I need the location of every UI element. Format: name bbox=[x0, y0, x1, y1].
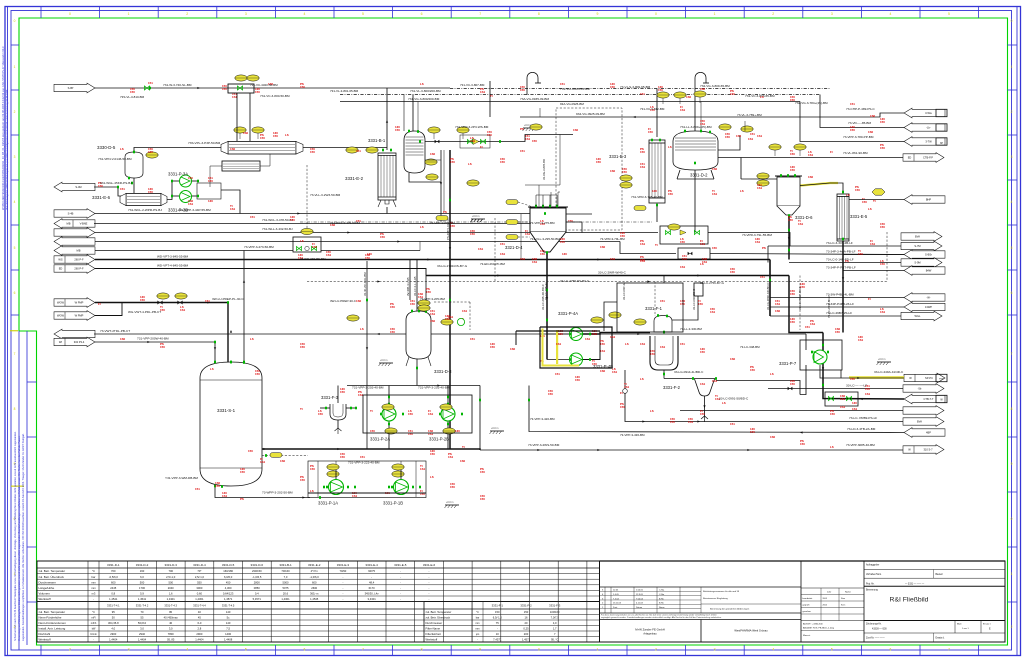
svg-text:7.04.04: 7.04.04 bbox=[636, 598, 644, 600]
svg-text:Plot: HP DesignJet 1055CM PS3: Plot: HP DesignJet 1055CM PS3 Papier A0 … bbox=[6, 89, 9, 210]
svg-text:+0.0 m: +0.0 m bbox=[446, 501, 453, 504]
svg-text:73S-VPL-3-P3P-50-BM: 73S-VPL-3-P3P-50-BM bbox=[188, 141, 221, 145]
svg-text:1S0: 1S0 bbox=[430, 152, 436, 156]
svg-text:4,0: 4,0 bbox=[553, 621, 557, 625]
svg-text:731-VC-4320-50-BM: 731-VC-4320-50-BM bbox=[250, 83, 278, 87]
svg-text:2: 2 bbox=[1011, 625, 1013, 629]
svg-text:4.11.03: 4.11.03 bbox=[636, 603, 644, 605]
svg-text:73-VPP-3-2WS-50-BM: 73-VPP-3-2WS-50-BM bbox=[528, 443, 560, 447]
svg-text:1S1: 1S1 bbox=[712, 192, 718, 196]
svg-text:bar: bar bbox=[476, 617, 480, 620]
svg-text:73-LL-3-330-BM: 73-LL-3-330-BM bbox=[680, 327, 702, 331]
svg-text:1S1: 1S1 bbox=[600, 349, 606, 353]
svg-text:bar: bar bbox=[92, 575, 96, 579]
svg-text:0: 0 bbox=[14, 19, 16, 23]
svg-text:TI: TI bbox=[370, 409, 373, 413]
svg-text:Bauteil: Bauteil bbox=[936, 573, 944, 576]
svg-text:1S0: 1S0 bbox=[510, 347, 516, 351]
svg-text:3331-F-3: 3331-F-3 bbox=[321, 395, 339, 400]
svg-text:150: 150 bbox=[880, 146, 885, 150]
svg-text:-: - bbox=[400, 576, 401, 579]
svg-text:73A-VG-0935-09-BM: 73A-VG-0935-09-BM bbox=[520, 97, 549, 101]
svg-text:150: 150 bbox=[310, 150, 315, 154]
svg-text:73-34P-P-PBT-PB-LF: 73-34P-P-PBT-PB-LF bbox=[826, 266, 856, 270]
svg-text:-1,0/6,0: -1,0/6,0 bbox=[310, 575, 320, 579]
svg-text:-: - bbox=[400, 598, 401, 601]
svg-text:140: 140 bbox=[226, 621, 231, 625]
svg-text:Volumen: Volumen bbox=[39, 592, 51, 596]
svg-text:ANLAGE: R.IS. FB-BILD_1.dwg: ANLAGE: R.IS. FB-BILD_1.dwg bbox=[803, 627, 835, 630]
svg-text:150: 150 bbox=[390, 330, 395, 334]
svg-text:1S1: 1S1 bbox=[612, 370, 618, 374]
svg-text:150: 150 bbox=[148, 190, 153, 194]
svg-text:2900: 2900 bbox=[110, 632, 116, 636]
svg-text:Name: Name bbox=[659, 607, 665, 609]
svg-text:-W-: -W- bbox=[926, 296, 930, 300]
svg-text:7,0: 7,0 bbox=[284, 575, 288, 579]
svg-text:Ersatz f.: Ersatz f. bbox=[983, 623, 991, 626]
svg-text:150: 150 bbox=[148, 150, 153, 154]
svg-text:1 von 1: 1 von 1 bbox=[962, 628, 969, 630]
svg-text:731-VPP-3-2P3-WS-BM: 731-VPP-3-2P3-WS-BM bbox=[455, 125, 489, 129]
svg-text:150: 150 bbox=[408, 412, 413, 416]
svg-text:FI: FI bbox=[830, 150, 833, 154]
svg-text:1S1: 1S1 bbox=[680, 265, 686, 269]
svg-text:1S1: 1S1 bbox=[448, 315, 454, 319]
svg-text:7: 7 bbox=[14, 352, 16, 356]
svg-text:150: 150 bbox=[865, 387, 870, 391]
svg-text:4: 4 bbox=[186, 648, 188, 652]
svg-text:4BP: 4BP bbox=[926, 431, 931, 435]
svg-text:33-LG-2755-DS-BY-G: 33-LG-2755-DS-BY-G bbox=[560, 279, 590, 283]
svg-text:160: 160 bbox=[140, 569, 145, 573]
svg-text:1.4.05: 1.4.05 bbox=[613, 594, 620, 596]
svg-text:1,4571: 1,4571 bbox=[224, 597, 233, 601]
svg-text:6: 6 bbox=[303, 648, 305, 652]
svg-text:151: 151 bbox=[195, 487, 200, 491]
svg-text:2445: 2445 bbox=[110, 586, 116, 590]
svg-text:2,5/-1,0: 2,5/-1,0 bbox=[195, 575, 205, 579]
svg-text:151: 151 bbox=[360, 455, 365, 459]
svg-text:1S1: 1S1 bbox=[478, 247, 484, 251]
svg-text:5: 5 bbox=[948, 12, 950, 16]
svg-text:Auftraggeber: Auftraggeber bbox=[866, 564, 880, 567]
svg-text:3331-E-3: 3331-E-3 bbox=[609, 154, 627, 159]
svg-text:Benennung der geänderten Änder: Benennung der geänderten Änderungen bbox=[710, 608, 750, 611]
svg-text:6: 6 bbox=[421, 12, 423, 16]
svg-text:m3/h: m3/h bbox=[91, 622, 97, 625]
svg-text:550: 550 bbox=[197, 580, 202, 584]
svg-text:1S0: 1S0 bbox=[356, 299, 362, 303]
svg-text:Ersatz d.: Ersatz d. bbox=[936, 637, 945, 640]
svg-text:bearbeitet: bearbeitet bbox=[803, 597, 813, 600]
svg-text:43330-—-500: 43330-—-500 bbox=[872, 628, 887, 631]
svg-text:7: 7 bbox=[948, 648, 950, 652]
svg-text:S-4M: S-4M bbox=[75, 185, 81, 189]
svg-text:+0.0 m: +0.0 m bbox=[491, 427, 498, 430]
svg-text:-: - bbox=[342, 593, 343, 596]
svg-text:1: 1 bbox=[1011, 572, 1013, 576]
svg-text:3,4301: 3,4301 bbox=[367, 597, 376, 601]
svg-text:1S1: 1S1 bbox=[520, 257, 526, 261]
svg-text:33-LC-2756-BY-G: 33-LC-2756-BY-G bbox=[700, 281, 725, 285]
svg-text:151: 151 bbox=[850, 102, 855, 106]
svg-text:151: 151 bbox=[760, 275, 765, 279]
svg-text:1S1: 1S1 bbox=[757, 186, 763, 190]
svg-text:731-WCL-3-478-50-BJ: 731-WCL-3-478-50-BJ bbox=[262, 218, 294, 222]
svg-text:731-VPN-V-0146-50-BM: 731-VPN-V-0146-50-BM bbox=[98, 157, 132, 161]
svg-text:95: 95 bbox=[112, 610, 115, 614]
svg-text:4,300: 4,300 bbox=[225, 586, 232, 590]
svg-text:Zeichnungs-Nr.: Zeichnungs-Nr. bbox=[866, 623, 882, 626]
svg-text:+0.0 m: +0.0 m bbox=[878, 358, 885, 361]
svg-text:1S1: 1S1 bbox=[556, 342, 562, 346]
svg-text:150: 150 bbox=[700, 412, 705, 416]
svg-text:150: 150 bbox=[300, 478, 305, 482]
svg-text:500: 500 bbox=[168, 580, 173, 584]
svg-text:3W-LU-PREP-PL-30-C: 3W-LU-PREP-PL-30-C bbox=[212, 297, 244, 301]
svg-text:150: 150 bbox=[500, 160, 505, 164]
svg-text:150: 150 bbox=[130, 90, 135, 94]
svg-text:3331-E-2: 3331-E-2 bbox=[308, 563, 321, 567]
svg-text:150: 150 bbox=[880, 262, 885, 266]
svg-text:150: 150 bbox=[730, 270, 735, 274]
svg-text:75: 75 bbox=[496, 621, 499, 625]
svg-text:73S-VL-3-810-BM: 73S-VL-3-810-BM bbox=[120, 95, 145, 99]
svg-text:73-LC-0-14P-PD-LF: 73-LC-0-14P-PD-LF bbox=[826, 258, 854, 262]
svg-text:3: 3 bbox=[14, 155, 16, 159]
svg-text:33-LG-2799-DS-BY-G: 33-LG-2799-DS-BY-G bbox=[437, 264, 468, 268]
svg-text:Zust.: Zust. bbox=[613, 606, 618, 609]
svg-text:LS: LS bbox=[668, 145, 672, 149]
svg-text:LS: LS bbox=[650, 409, 654, 413]
svg-text:S-9M: S-9M bbox=[914, 261, 920, 265]
svg-text:150: 150 bbox=[450, 485, 455, 489]
svg-text:LS: LS bbox=[430, 475, 434, 479]
svg-text:PS: PS bbox=[240, 497, 244, 501]
svg-text:151: 151 bbox=[555, 372, 560, 376]
svg-text:1S1: 1S1 bbox=[688, 420, 694, 424]
svg-text:150: 150 bbox=[790, 382, 795, 386]
svg-text:MB: MB bbox=[77, 249, 81, 253]
svg-text:3331-T-4.2: 3331-T-4.2 bbox=[136, 604, 149, 608]
svg-text:Verwertung und Mitteilung ihre: Verwertung und Mitteilung ihres Inhaltes… bbox=[18, 435, 21, 641]
svg-text:1S1: 1S1 bbox=[880, 310, 886, 314]
svg-text:150: 150 bbox=[855, 188, 860, 192]
svg-text:FI: FI bbox=[480, 145, 483, 149]
svg-text:731-VPP-200W-40-BM: 731-VPP-200W-40-BM bbox=[137, 337, 169, 341]
svg-text:7: 7 bbox=[362, 648, 364, 652]
svg-text:150: 150 bbox=[850, 377, 855, 381]
svg-text:0: 0 bbox=[69, 12, 71, 16]
svg-text:3331-P-3A: 3331-P-3A bbox=[168, 172, 188, 177]
svg-text:3331-P-7: 3331-P-7 bbox=[779, 361, 797, 366]
svg-text:150: 150 bbox=[698, 302, 703, 306]
svg-text:150: 150 bbox=[410, 302, 415, 306]
svg-text:4: 4 bbox=[303, 12, 305, 16]
svg-text:0,25: 0,25 bbox=[523, 627, 529, 631]
svg-text:3331-B-1: 3331-B-1 bbox=[368, 138, 386, 143]
svg-text:73-LC-29B-4a: 73-LC-29B-4a bbox=[544, 282, 548, 300]
svg-text:150: 150 bbox=[312, 245, 317, 249]
svg-text:3V-40B-4-L-A5: 3V-40B-4-L-A5 bbox=[406, 277, 410, 296]
svg-text:LS: LS bbox=[310, 489, 314, 493]
svg-text:140: 140 bbox=[226, 610, 231, 614]
svg-text:PS: PS bbox=[443, 210, 447, 214]
svg-text:73-VL-3-789+-BM: 73-VL-3-789+-BM bbox=[737, 113, 762, 117]
svg-text:Nenn-Förderhöhe: Nenn-Förderhöhe bbox=[39, 616, 62, 620]
svg-text:LS: LS bbox=[420, 225, 424, 229]
svg-text:73-VPR-3-79L-BM: 73-VPR-3-79L-BM bbox=[600, 237, 625, 241]
svg-text:zul. Betr. Überdruck: zul. Betr. Überdruck bbox=[39, 575, 65, 579]
svg-text:1S1: 1S1 bbox=[188, 202, 194, 206]
svg-text:FI: FI bbox=[98, 302, 101, 306]
svg-text:3331-T-4.5: 3331-T-4.5 bbox=[222, 604, 235, 608]
svg-text:TI: TI bbox=[490, 94, 493, 98]
svg-text:-: - bbox=[429, 581, 430, 584]
svg-text:150: 150 bbox=[365, 256, 370, 260]
svg-text:+0.0 m: +0.0 m bbox=[380, 359, 387, 362]
svg-text:2940: 2940 bbox=[139, 632, 145, 636]
svg-text:1S1: 1S1 bbox=[585, 337, 591, 341]
svg-text:73-VPP-3-780-PP-BM: 73-VPP-3-780-PP-BM bbox=[843, 135, 874, 139]
svg-text:150: 150 bbox=[340, 390, 345, 394]
svg-text:73-V-LS-3-809-65-BM: 73-V-LS-3-809-65-BM bbox=[620, 85, 651, 89]
svg-text:731-VG-3-800/200-BM: 731-VG-3-800/200-BM bbox=[408, 97, 440, 101]
svg-text:Schutzvermerk nach DIN 34 beac: Schutzvermerk nach DIN 34 beachten! Weit… bbox=[14, 431, 17, 641]
svg-text:150: 150 bbox=[682, 257, 687, 261]
svg-text:150: 150 bbox=[830, 412, 835, 416]
svg-text:3331-D-2: 3331-D-2 bbox=[690, 173, 708, 178]
svg-text:40: 40 bbox=[169, 621, 172, 625]
svg-text:1S1: 1S1 bbox=[640, 342, 646, 346]
svg-text:150: 150 bbox=[300, 345, 305, 349]
svg-text:7: 7 bbox=[1011, 352, 1013, 356]
svg-text:Benennung: Benennung bbox=[866, 590, 878, 592]
svg-text:3331-D-1: 3331-D-1 bbox=[107, 563, 120, 567]
svg-text:1S1: 1S1 bbox=[610, 257, 616, 261]
svg-text:130: 130 bbox=[852, 401, 857, 405]
svg-text:4: 4 bbox=[1011, 200, 1013, 204]
svg-text:732-VG-3-784+(25)-BM: 732-VG-3-784+(25)-BM bbox=[795, 101, 828, 105]
svg-text:1S1: 1S1 bbox=[748, 137, 754, 141]
svg-text:1S0: 1S0 bbox=[573, 128, 579, 132]
svg-text:AUSGF.: +3330-500: AUSGF.: +3330-500 bbox=[803, 623, 823, 626]
svg-text:5: 5 bbox=[831, 648, 833, 652]
svg-text:3331-P-1B: 3331-P-1B bbox=[383, 501, 403, 506]
svg-text:6: 6 bbox=[1011, 291, 1013, 295]
svg-text:3331-E-6: 3331-E-6 bbox=[92, 195, 111, 200]
svg-text:73-LC-2WR-BD-C: 73-LC-2WR-BD-C bbox=[827, 295, 831, 318]
svg-text:WG-VWT-4-PDL-PB-CT: WG-VWT-4-PDL-PB-CT bbox=[128, 310, 161, 314]
svg-text:1,4541: 1,4541 bbox=[138, 597, 147, 601]
svg-text:3W-LU-PREP-30-C: 3W-LU-PREP-30-C bbox=[330, 299, 357, 303]
svg-text:10: 10 bbox=[496, 632, 499, 636]
svg-text:1S1: 1S1 bbox=[260, 460, 266, 464]
svg-text:1S0: 1S0 bbox=[460, 459, 466, 463]
svg-text:-1,0/6,5: -1,0/6,5 bbox=[252, 575, 262, 579]
svg-text:8: 8 bbox=[421, 648, 423, 652]
svg-text:1: 1 bbox=[714, 12, 716, 16]
svg-text:Werkstoff: Werkstoff bbox=[39, 597, 51, 601]
svg-text:151: 151 bbox=[520, 149, 525, 153]
svg-text:LS: LS bbox=[120, 147, 124, 151]
svg-text:33-LC-— —-LF: 33-LC-— —-LF bbox=[846, 384, 867, 388]
svg-text:3331-D-4: 3331-D-4 bbox=[193, 563, 206, 567]
svg-text:150: 150 bbox=[273, 134, 278, 138]
svg-text:1S1: 1S1 bbox=[624, 385, 630, 389]
svg-text:73-LC-3-34T-4B-LF: 73-LC-3-34T-4B-LF bbox=[826, 241, 853, 245]
svg-text:W PMP: W PMP bbox=[75, 301, 84, 305]
svg-text:1S1: 1S1 bbox=[710, 310, 716, 314]
svg-text:WGW: WGW bbox=[57, 301, 64, 305]
svg-text:M+W Zander FE GmbH: M+W Zander FE GmbH bbox=[635, 628, 664, 632]
svg-text:mm: mm bbox=[476, 628, 480, 631]
svg-text:5: 5 bbox=[14, 246, 16, 250]
svg-text:150: 150 bbox=[658, 88, 663, 92]
svg-text:6,0/6,0: 6,0/6,0 bbox=[224, 575, 233, 579]
svg-text:73-VWT-2TDL-PB-CT: 73-VWT-2TDL-PB-CT bbox=[100, 329, 130, 333]
svg-text:3331-S-1: 3331-S-1 bbox=[217, 408, 236, 413]
svg-text:3331-F-1: 3331-F-1 bbox=[645, 306, 663, 311]
svg-text:73-WPP-3-202-50-BM: 73-WPP-3-202-50-BM bbox=[262, 491, 293, 495]
svg-text:13.11.03: 13.11.03 bbox=[613, 603, 622, 605]
svg-text:3: 3 bbox=[1011, 155, 1013, 159]
svg-text:304,35-8: 304,35-8 bbox=[108, 621, 119, 625]
svg-text:33-40-2R-4-AL-BM: 33-40-2R-4-AL-BM bbox=[363, 272, 367, 296]
svg-text:150: 150 bbox=[668, 192, 673, 196]
svg-text:150: 150 bbox=[790, 168, 795, 172]
svg-text:B4W: B4W bbox=[926, 269, 932, 273]
svg-text:1S0: 1S0 bbox=[712, 167, 718, 171]
svg-text:73-VPP-3-2P0-BM: 73-VPP-3-2P0-BM bbox=[420, 297, 445, 301]
svg-text:WS: WS bbox=[58, 258, 62, 262]
svg-text:150: 150 bbox=[560, 240, 565, 244]
svg-text:LS: LS bbox=[830, 445, 834, 449]
svg-text:150: 150 bbox=[490, 345, 495, 349]
svg-text:LS: LS bbox=[210, 367, 214, 371]
svg-text:1S1: 1S1 bbox=[180, 308, 186, 312]
svg-text:kW: kW bbox=[92, 628, 96, 631]
svg-text:150: 150 bbox=[487, 133, 492, 137]
svg-text:3331-D-3: 3331-D-3 bbox=[164, 563, 177, 567]
svg-text:151: 151 bbox=[805, 325, 810, 329]
svg-text:40: 40 bbox=[198, 610, 201, 614]
svg-text:150: 150 bbox=[790, 98, 795, 102]
svg-text:zul. Betr. Überdruck: zul. Betr. Überdruck bbox=[426, 616, 451, 620]
svg-text:150: 150 bbox=[788, 218, 793, 222]
svg-text:150: 150 bbox=[430, 452, 435, 456]
svg-text:1S1: 1S1 bbox=[700, 382, 706, 386]
svg-text:1S1: 1S1 bbox=[532, 260, 538, 264]
svg-text:6170: 6170 bbox=[369, 586, 375, 590]
svg-text:3331-F-2: 3331-F-2 bbox=[520, 604, 532, 608]
svg-text:731-WPP-3-44P-55-BM: 731-WPP-3-44P-55-BM bbox=[178, 208, 211, 212]
svg-text:150: 150 bbox=[670, 420, 675, 424]
svg-text:100/160: 100/160 bbox=[550, 610, 560, 614]
svg-text:S-8P: S-8P bbox=[68, 86, 74, 90]
svg-text:150: 150 bbox=[426, 290, 431, 294]
svg-text:151: 151 bbox=[660, 299, 665, 303]
svg-text:8: 8 bbox=[14, 407, 16, 411]
svg-text:1S1: 1S1 bbox=[808, 153, 814, 157]
svg-text:731-VLL-3-295-50-BM: 731-VLL-3-295-50-BM bbox=[530, 237, 560, 241]
svg-text:150: 150 bbox=[790, 320, 795, 324]
svg-text:40 /450max: 40 /450max bbox=[164, 616, 179, 620]
svg-text:20: 20 bbox=[525, 621, 528, 625]
svg-text:150: 150 bbox=[750, 368, 755, 372]
svg-text:1S0: 1S0 bbox=[280, 459, 286, 463]
svg-text:µm: µm bbox=[476, 633, 479, 636]
svg-text:-: - bbox=[342, 581, 343, 584]
svg-text:4: 4 bbox=[14, 200, 16, 204]
svg-text:332 P3-4: 332 P3-4 bbox=[74, 340, 85, 344]
svg-text:Filterfeinheit: Filterfeinheit bbox=[426, 632, 441, 636]
svg-text:150: 150 bbox=[558, 332, 563, 336]
svg-text:150: 150 bbox=[248, 449, 253, 453]
svg-text:1S1: 1S1 bbox=[865, 392, 871, 396]
svg-text:150: 150 bbox=[222, 87, 227, 91]
svg-text:-: - bbox=[497, 628, 498, 631]
svg-text:-0,5/6,0: -0,5/6,0 bbox=[109, 575, 119, 579]
svg-text:130: 130 bbox=[367, 252, 372, 256]
svg-text:150: 150 bbox=[600, 342, 605, 346]
svg-text:33-LC-3-L-3-A5: 33-LC-3-L-3-A5 bbox=[413, 276, 417, 296]
svg-text:9: 9 bbox=[479, 648, 481, 652]
svg-text:73-VD-—-85-BM: 73-VD-—-85-BM bbox=[848, 121, 871, 125]
svg-text:7800: 7800 bbox=[168, 632, 174, 636]
svg-text:8: 8 bbox=[538, 12, 540, 16]
svg-text:5: 5 bbox=[245, 648, 247, 652]
svg-text:33-LC-PREP-BD-C: 33-LC-PREP-BD-C bbox=[798, 286, 802, 310]
svg-text:1S1: 1S1 bbox=[870, 242, 876, 246]
svg-text:-Lb-: -Lb- bbox=[926, 126, 931, 130]
svg-text:-: - bbox=[342, 587, 343, 590]
svg-text:-: - bbox=[429, 576, 430, 579]
svg-text:1S1: 1S1 bbox=[736, 134, 742, 138]
svg-text:1S0: 1S0 bbox=[600, 369, 606, 373]
svg-text:Steu: Steu bbox=[841, 597, 845, 600]
svg-text:1: 1 bbox=[596, 648, 598, 652]
svg-text:150: 150 bbox=[596, 160, 601, 164]
svg-text:1S1: 1S1 bbox=[840, 405, 846, 409]
svg-text:1: 1 bbox=[128, 12, 130, 16]
svg-text:1S1: 1S1 bbox=[852, 407, 858, 411]
svg-text:3-TW: 3-TW bbox=[925, 140, 932, 144]
svg-text:LS: LS bbox=[740, 189, 744, 193]
svg-text:150: 150 bbox=[800, 285, 805, 289]
svg-text:1,4541: 1,4541 bbox=[109, 597, 118, 601]
svg-text:Anlagenbau: Anlagenbau bbox=[643, 633, 657, 636]
svg-text:150: 150 bbox=[575, 378, 580, 382]
svg-text:151: 151 bbox=[500, 242, 505, 246]
svg-text:1S1: 1S1 bbox=[326, 253, 332, 257]
svg-text:PWV: PWV bbox=[939, 378, 945, 380]
svg-text:33-VG-3-805-BD: 33-VG-3-805-BD bbox=[542, 159, 546, 180]
svg-text:150: 150 bbox=[520, 88, 525, 92]
svg-text:150: 150 bbox=[850, 128, 855, 132]
svg-text:150: 150 bbox=[532, 139, 537, 143]
svg-text:150: 150 bbox=[160, 345, 165, 349]
svg-text:1S1: 1S1 bbox=[680, 108, 686, 112]
svg-text:150: 150 bbox=[524, 610, 529, 614]
svg-text:150: 150 bbox=[255, 90, 260, 94]
svg-text:70: 70 bbox=[141, 610, 144, 614]
svg-text:gesehen: gesehen bbox=[803, 611, 812, 613]
svg-text:1400: 1400 bbox=[225, 632, 231, 636]
svg-text:Reinstwasser Ringleitung: Reinstwasser Ringleitung bbox=[703, 597, 728, 600]
svg-text:7: 7 bbox=[479, 12, 481, 16]
